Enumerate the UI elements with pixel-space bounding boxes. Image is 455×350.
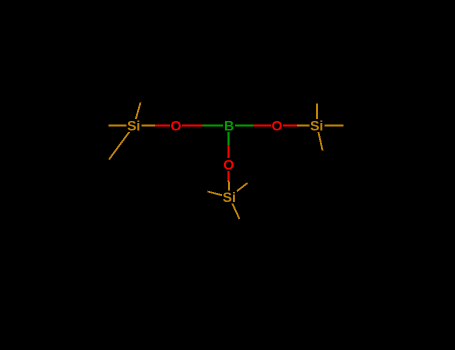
wire methyl bond Si1-C (down-left) xyxy=(109,126,134,160)
wire methyl bond Si3-C (down-right) xyxy=(229,197,239,219)
svg-text:O: O xyxy=(272,117,283,133)
wire bond Si1-O1 (oxygen half) xyxy=(155,125,176,127)
wire methyl bond Si2-C (right) xyxy=(317,125,344,127)
atom label B1 (boron) xyxy=(223,117,235,133)
wire bond Si1-O1 (silicon half) xyxy=(134,125,155,127)
wire methyl bond Si1-C (left) xyxy=(109,125,135,127)
wire methyl bond Si1-C (up-right) xyxy=(134,103,141,126)
atom label O3 (bottom oxygen) xyxy=(223,156,235,172)
wire bond B1-O2 (boron half) xyxy=(229,125,253,127)
wire bond O2-Si2 (oxygen half) xyxy=(277,125,297,127)
wire bond O2-Si2 (silicon half) xyxy=(297,125,317,127)
wire methyl bond Si2-C (down-right) xyxy=(317,126,323,151)
wire bond B1-O2 (oxygen half) xyxy=(253,125,277,127)
wire bond O3-Si3 (oxygen half) xyxy=(228,164,230,180)
atom label Si1 (left silicon) xyxy=(127,117,142,133)
wire bond B1-O3 (boron half) xyxy=(228,126,230,146)
svg-text:Si: Si xyxy=(127,117,140,133)
atom label O1 (left oxygen) xyxy=(170,117,182,133)
atom label Si2 (right silicon) xyxy=(310,117,325,133)
wire methyl bond Si3-C (up-right) xyxy=(229,183,247,197)
svg-text:Si: Si xyxy=(310,117,323,133)
svg-text:O: O xyxy=(171,117,182,133)
wire bond O1-B1 (oxygen half) xyxy=(176,125,203,127)
wire bond O1-B1 (boron half) xyxy=(203,125,230,127)
svg-text:O: O xyxy=(223,156,234,172)
svg-text:Si: Si xyxy=(223,189,236,205)
atom label O2 (right oxygen) xyxy=(271,117,283,133)
wire bond B1-O3 (oxygen half) xyxy=(228,145,230,164)
wire methyl bond Si2-C (up) xyxy=(316,104,318,126)
svg-text:B: B xyxy=(224,117,234,133)
wire bond O3-Si3 (silicon half) xyxy=(228,181,231,197)
wire methyl bond Si3-C (left) xyxy=(208,192,230,198)
atom label Si3 (bottom silicon) xyxy=(222,189,237,205)
